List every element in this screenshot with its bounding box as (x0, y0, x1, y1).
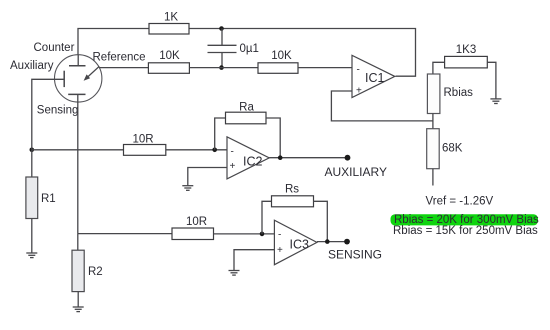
svg-text:+: + (230, 161, 236, 172)
wire IC2 output to AUXILIARY (269, 157, 347, 159)
wire R2 to ground (77, 292, 79, 307)
svg-text:Counter: Counter (34, 42, 75, 54)
ground right of 1K3 (490, 99, 501, 104)
wire sensing electrode down (77, 94, 79, 233)
svg-text:IC2: IC2 (243, 155, 263, 169)
svg-text:IC1: IC1 (365, 71, 385, 85)
wire auxiliary down to node (32, 79, 64, 150)
wire feedback up to Rs left (262, 201, 272, 234)
svg-text:+: + (356, 86, 362, 97)
junction node IC2 output (278, 155, 283, 160)
svg-text:10R: 10R (132, 134, 153, 146)
svg-text:-: - (231, 147, 234, 158)
sensing electrode (68, 93, 85, 95)
wire sensing node to R2 (77, 234, 79, 251)
resistor R1 (26, 177, 38, 219)
junction node IC3 output (325, 239, 330, 244)
resistor 10R second (172, 228, 214, 240)
ground below R2 (73, 307, 84, 312)
counter electrode (69, 55, 86, 66)
wire 10R to IC3 inverting input (214, 233, 275, 235)
highlight Rbias 20K note (391, 214, 539, 225)
reference arrow electrode (84, 66, 100, 80)
svg-text:R1: R1 (41, 193, 56, 205)
svg-text:Reference: Reference (93, 52, 146, 64)
resistor R2 (72, 250, 84, 291)
svg-text:Rs: Rs (285, 184, 299, 196)
wire sensing row to 10R (78, 233, 172, 235)
op-amp IC3 (274, 220, 317, 265)
svg-text:1K: 1K (164, 12, 178, 24)
wire node to 10R (32, 149, 124, 151)
wire feedback up to Ra left (215, 118, 226, 150)
svg-text:0µ1: 0µ1 (240, 43, 259, 55)
svg-text:Vref = -1.26V: Vref = -1.26V (426, 196, 494, 208)
terminal node AUXILIARY (345, 155, 351, 161)
op-amp IC2 (227, 137, 269, 179)
svg-text:IC3: IC3 (290, 238, 310, 252)
resistor 10K second (258, 63, 298, 74)
ground IC3 (229, 271, 240, 276)
resistor 10R first (124, 145, 166, 156)
wire 68K to Vref (432, 169, 434, 186)
svg-text:Rbias = 15K for 250mV Bias: Rbias = 15K for 250mV Bias (393, 225, 538, 237)
svg-text:1K3: 1K3 (456, 44, 476, 56)
wire Rbias top to 1K3 (433, 62, 445, 74)
svg-text:SENSING: SENSING (328, 248, 382, 262)
svg-text:10R: 10R (186, 216, 207, 228)
resistor 68K (427, 129, 440, 169)
op-amp IC1 (352, 55, 395, 97)
svg-text:-: - (278, 229, 281, 240)
svg-text:-: - (357, 65, 360, 76)
wire between 10K resistors (189, 67, 258, 69)
wire R1 to ground (31, 219, 33, 253)
ground below R1 (26, 253, 37, 258)
terminal node SENSING (344, 239, 350, 245)
wire 1K3 to ground (487, 62, 496, 98)
svg-text:+: + (277, 245, 283, 256)
wire node to R1 (31, 150, 33, 177)
junction node top of C1 (219, 26, 224, 31)
svg-text:Auxiliary: Auxiliary (10, 60, 54, 72)
wire Ra right down to IC2 output (266, 118, 280, 158)
resistor Rbias (427, 74, 440, 114)
svg-text:68K: 68K (442, 143, 463, 155)
svg-text:Rbias: Rbias (444, 87, 474, 99)
wire 10K to IC1 inverting input (298, 67, 352, 69)
wire top feedback from counter node to IC1 output (78, 29, 416, 77)
sensor body (circle) (54, 55, 101, 102)
resistor Ra (226, 112, 267, 124)
svg-text:Ra: Ra (239, 102, 254, 114)
wire IC2 non-inverting input to ground (188, 168, 227, 186)
node junction auxiliary/R1 (30, 148, 35, 153)
resistor 10K first (148, 63, 189, 74)
svg-text:AUXILIARY: AUXILIARY (325, 165, 387, 179)
ground IC2 (182, 186, 193, 191)
svg-text:10K: 10K (271, 50, 292, 62)
svg-text:10K: 10K (159, 50, 180, 62)
svg-text:Sensing: Sensing (37, 105, 79, 117)
wire Rbias to 68K (432, 114, 434, 129)
resistor 1K3 (445, 56, 488, 68)
junction node IC3 inverting input (260, 232, 265, 237)
wire reference to 10K (99, 67, 148, 69)
svg-text:R2: R2 (88, 266, 103, 278)
auxiliary electrode (63, 71, 65, 87)
wire IC3 output to SENSING (317, 241, 347, 243)
wire IC1 non-inverting input to bias node (331, 91, 433, 121)
junction node IC2 inverting input (212, 148, 217, 153)
resistor Rs (272, 196, 314, 207)
junction node bottom of C1 (219, 65, 224, 70)
capacitor 0u1 (208, 29, 237, 68)
wire 10R to IC2 inverting input (166, 149, 227, 151)
wire IC3 non-inverting input to ground (234, 250, 274, 271)
wire Rs right down to IC3 output (314, 201, 328, 241)
resistor 1K (149, 24, 189, 35)
